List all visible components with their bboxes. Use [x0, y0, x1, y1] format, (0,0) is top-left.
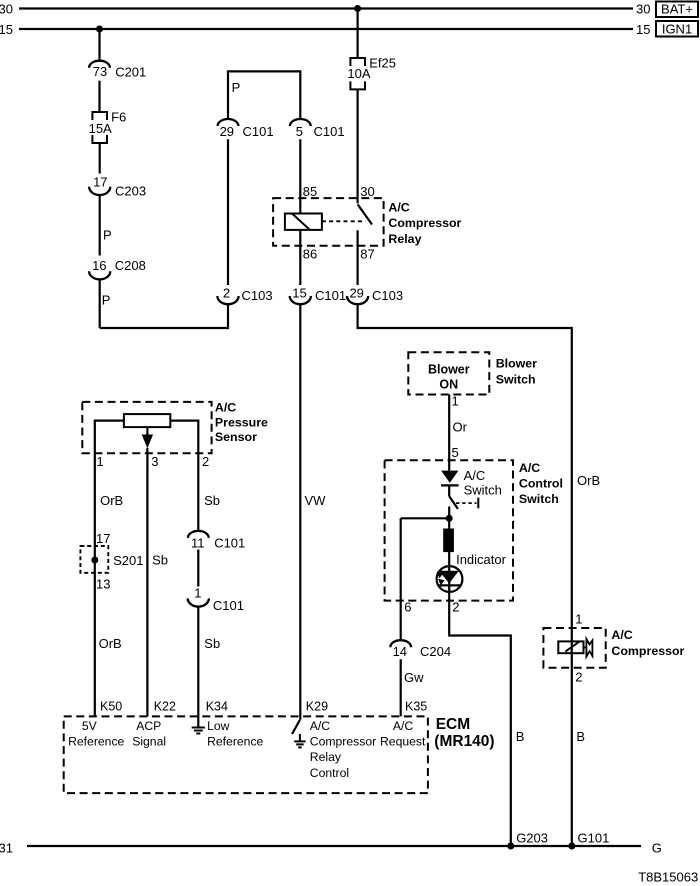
svg-text:5: 5 [296, 124, 303, 139]
svg-text:C101: C101 [315, 288, 346, 303]
label 15 left [0, 22, 13, 37]
svg-text:17: 17 [96, 531, 110, 546]
label ECM (MR140) [434, 716, 494, 750]
compressor pin 1 [575, 611, 582, 626]
svg-text:B: B [516, 729, 525, 744]
wire pin1 OrB to S201 [95, 453, 123, 546]
wire C201 to F6 [98, 81, 100, 112]
svg-text:86: 86 [303, 247, 317, 262]
label A/C Compressor Relay [388, 201, 461, 246]
svg-text:Ef25: Ef25 [369, 56, 396, 71]
ECM K29 driver switch [292, 720, 300, 741]
connector C101 pin 29 [218, 119, 274, 139]
svg-text:87: 87 [360, 247, 374, 262]
wire C208 down, P [100, 279, 111, 328]
connector C101 pin 5 [290, 119, 345, 139]
wire relay 86 to C101-15 [300, 230, 317, 285]
label Blower Switch [496, 357, 537, 387]
resistor indicator [444, 529, 454, 552]
svg-text:T8B15063: T8B15063 [638, 869, 698, 884]
ECM K29 ground [294, 741, 305, 747]
svg-text:P: P [232, 80, 241, 95]
splice S201 [80, 546, 143, 573]
svg-text:C208: C208 [115, 258, 146, 273]
svg-text:P: P [103, 228, 112, 243]
connector C103 pin 2 [217, 286, 272, 305]
terminal box BAT+ [656, 2, 698, 18]
wire LED to corner B [449, 592, 524, 846]
wire compressor to G101, B [572, 653, 585, 846]
wire C101-11 to C101-1 [197, 550, 199, 587]
wire C101-1 Sb to K34 [198, 607, 228, 728]
label A/C Control Switch [519, 461, 563, 506]
drawing number T8B15063 [638, 869, 698, 884]
svg-text:ON: ON [439, 378, 458, 392]
terminal box IGN1 [656, 21, 698, 37]
svg-text:15: 15 [636, 22, 650, 37]
svg-text:31: 31 [0, 840, 13, 855]
svg-text:G101: G101 [578, 831, 610, 846]
svg-text:Reference: Reference [207, 735, 263, 749]
svg-text:30: 30 [0, 2, 13, 17]
wire S201 to K50 OrB [95, 546, 122, 716]
compressor pin 2 [575, 669, 582, 684]
relay box A/C Compressor Relay [273, 198, 384, 246]
svg-text:5V: 5V [82, 719, 98, 733]
wire bus 30 (BAT+) [19, 7, 633, 9]
svg-text:C201: C201 [115, 64, 146, 79]
junction on bus 30 [354, 5, 361, 12]
svg-text:Blower: Blower [428, 363, 470, 377]
wire C204 to K35 Gw [401, 659, 428, 716]
svg-text:K50: K50 [100, 700, 122, 714]
svg-text:VW: VW [305, 493, 327, 508]
svg-text:B: B [576, 729, 585, 744]
svg-text:C101: C101 [214, 535, 245, 550]
wire bridge to C101-5 [299, 71, 301, 119]
junction node [446, 515, 453, 522]
svg-text:G: G [652, 840, 662, 855]
svg-text:73: 73 [93, 64, 107, 79]
svg-text:F6: F6 [111, 109, 126, 124]
svg-text:Low: Low [207, 719, 230, 733]
A/C pressure sensor box [82, 402, 211, 453]
wire Ef25 to relay 30 [358, 89, 375, 203]
svg-text:Reference: Reference [68, 735, 124, 749]
wire corner to C103 pin 2 [100, 304, 228, 328]
wire resistor to LED [448, 552, 450, 593]
svg-text:6: 6 [404, 599, 411, 614]
wire node to pin 6 branch [401, 517, 450, 519]
svg-text:Control: Control [519, 476, 563, 490]
label 15 right [636, 22, 650, 37]
sensor wiper [142, 427, 153, 453]
svg-text:K35: K35 [405, 700, 427, 714]
connector C101 pin 11 [188, 531, 245, 551]
blower switch box [408, 352, 489, 394]
svg-text:Sensor: Sensor [215, 430, 257, 444]
ECM pin K34 Low Reference [207, 719, 263, 749]
svg-text:2: 2 [452, 599, 459, 614]
svg-text:ACP: ACP [136, 719, 161, 733]
svg-text:OrB: OrB [577, 473, 600, 488]
svg-text:Pressure: Pressure [215, 415, 268, 429]
svg-text:A/C: A/C [464, 468, 486, 483]
sensor wire pin2 [170, 421, 209, 470]
compressor clutch coil [558, 641, 583, 653]
wire pin2 Sb to C101-11 [198, 453, 220, 531]
svg-text:K29: K29 [306, 700, 328, 714]
connector C203 pin 17 [89, 174, 146, 198]
svg-text:Switch: Switch [519, 492, 559, 506]
svg-text:29: 29 [220, 124, 234, 139]
svg-text:5: 5 [452, 445, 459, 460]
compressor thermal limiter [584, 639, 593, 657]
svg-text:15: 15 [0, 22, 13, 37]
svg-text:16: 16 [92, 258, 106, 273]
wire wiper Sb to K22 [147, 449, 176, 716]
wire pin 6 down to C204 [401, 518, 412, 640]
wire bus30 to Ef25 [357, 9, 359, 59]
svg-text:OrB: OrB [99, 636, 122, 651]
svg-text:Signal: Signal [132, 735, 166, 749]
svg-text:Switch: Switch [496, 373, 536, 387]
wire C103-29 corner to compressor [358, 304, 601, 641]
diode A/C switch [441, 471, 459, 486]
connector C201 pin 73 [89, 61, 146, 80]
svg-text:30: 30 [360, 184, 374, 199]
switch link dashed [456, 498, 478, 509]
svg-text:17: 17 [93, 174, 107, 189]
svg-text:G203: G203 [516, 831, 548, 846]
svg-text:K22: K22 [154, 700, 176, 714]
switch blade A/C switch [449, 485, 458, 509]
wire bridge P [228, 71, 300, 95]
connector C101 pin 1 [188, 586, 244, 613]
svg-text:Sb: Sb [204, 493, 220, 508]
wire C103-2 up to C101-29 [227, 139, 229, 285]
svg-text:1: 1 [194, 586, 201, 601]
ECM pin K29 text [310, 719, 376, 780]
svg-text:13: 13 [96, 577, 110, 592]
wire F6 to C203 [99, 143, 101, 174]
A/C control switch box [385, 460, 513, 600]
wire C101-5 to relay coil, pin 85 [300, 139, 317, 213]
junction on bus 15 [96, 26, 103, 33]
svg-text:ECM: ECM [436, 716, 470, 733]
svg-text:A/C: A/C [393, 719, 414, 733]
svg-text:Compressor: Compressor [310, 735, 376, 749]
svg-text:A/C: A/C [388, 201, 409, 215]
svg-text:11: 11 [191, 536, 205, 551]
svg-text:Blower: Blower [496, 357, 537, 371]
svg-text:A/C: A/C [310, 719, 331, 733]
fuse Ef25 10A [347, 56, 396, 90]
ground G101 [568, 831, 609, 850]
svg-text:(MR140): (MR140) [434, 733, 494, 750]
svg-text:15: 15 [292, 286, 306, 301]
wire bus 15 (IGN1) [19, 28, 633, 30]
svg-text:S201: S201 [113, 553, 143, 568]
connector C101 pin 15 [290, 286, 346, 304]
label 30 left [0, 2, 13, 17]
svg-text:K34: K34 [206, 700, 228, 714]
svg-text:85: 85 [303, 184, 317, 199]
svg-text:BAT+: BAT+ [661, 2, 693, 17]
svg-text:29: 29 [349, 286, 363, 301]
ECM box [64, 716, 428, 793]
svg-text:C103: C103 [372, 288, 403, 303]
svg-text:2: 2 [575, 669, 582, 684]
wire C203 to C208, P [100, 195, 112, 256]
sensor resistor [124, 414, 170, 427]
ECM pin K34 ground [192, 728, 205, 734]
ground bus 31 [0, 840, 662, 855]
ECM pin K22 ACP Signal [132, 719, 166, 749]
svg-text:Compressor: Compressor [388, 216, 461, 230]
svg-text:C204: C204 [420, 644, 451, 659]
svg-text:2: 2 [223, 286, 230, 301]
svg-text:30: 30 [636, 2, 650, 17]
svg-text:Compressor: Compressor [611, 644, 684, 658]
svg-text:A/C: A/C [519, 461, 540, 475]
svg-text:Indicator: Indicator [456, 552, 507, 567]
svg-text:A/C: A/C [611, 628, 632, 642]
sensor pin3 [151, 454, 158, 469]
ECM pin K35 text [380, 719, 426, 749]
svg-text:14: 14 [393, 644, 407, 659]
wire blower pin 1 Or [449, 394, 467, 471]
svg-text:C203: C203 [115, 184, 146, 199]
svg-text:C101: C101 [243, 124, 274, 139]
svg-text:C103: C103 [242, 288, 273, 303]
svg-text:Sb: Sb [204, 636, 220, 651]
connector C204 pin 14 [390, 640, 451, 659]
svg-text:A/C: A/C [215, 401, 236, 415]
svg-text:Relay: Relay [310, 750, 342, 764]
label A/C Compressor [611, 628, 684, 658]
ECM pin K50 5V Reference [68, 719, 124, 749]
connector C208 pin 16 [89, 258, 146, 279]
ground G203 [507, 831, 548, 850]
svg-text:15A: 15A [89, 121, 112, 136]
wire relay 87 to C103-29 [358, 230, 375, 285]
svg-text:Relay: Relay [388, 232, 421, 246]
relay switch blade [358, 204, 372, 224]
A/C compressor box [543, 628, 605, 668]
svg-text:1: 1 [452, 394, 459, 409]
svg-text:Switch: Switch [464, 482, 502, 497]
label A/C Pressure Sensor [215, 401, 268, 445]
svg-text:2: 2 [202, 454, 209, 469]
svg-text:1: 1 [97, 454, 104, 469]
relay actuator dashed link [322, 220, 365, 222]
label 30 right [636, 2, 650, 17]
svg-text:Or: Or [453, 420, 468, 435]
wire IGN1 to C201 [98, 29, 100, 61]
sensor wire pin1 [95, 421, 124, 470]
wire blade to node [448, 507, 450, 530]
svg-text:OrB: OrB [100, 493, 123, 508]
fuse F6 15A [89, 109, 127, 143]
svg-text:Control: Control [310, 766, 349, 780]
svg-text:3: 3 [151, 454, 158, 469]
LED indicator lamp [437, 552, 507, 592]
relay coil [285, 214, 322, 230]
wire VW C101-15 to ECM K29 [300, 304, 326, 720]
svg-text:Sb: Sb [152, 553, 168, 568]
svg-text:P: P [102, 292, 111, 307]
label A/C Switch [464, 468, 502, 498]
svg-text:C101: C101 [314, 124, 345, 139]
svg-text:C101: C101 [213, 598, 244, 613]
svg-text:Request: Request [380, 735, 426, 749]
wire C101-29 to bridge [227, 71, 229, 119]
svg-text:1: 1 [575, 611, 582, 626]
svg-text:Gw: Gw [404, 670, 424, 685]
connector C103 pin 29 [347, 286, 403, 305]
svg-text:10A: 10A [347, 66, 370, 81]
ECM pin K29 label [306, 700, 328, 714]
svg-text:IGN1: IGN1 [662, 21, 692, 36]
